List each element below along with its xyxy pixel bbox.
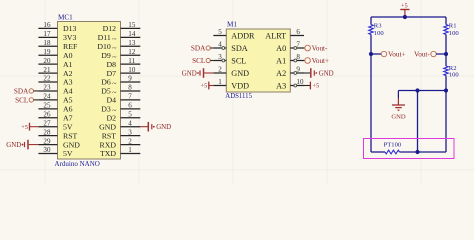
M1 comment ADS1115 [225, 93, 252, 100]
wire M1 pin 7 to Vout- port [303, 47, 306, 49]
power +5 (top of divider) [400, 3, 409, 17]
svg-text:GND: GND [63, 140, 80, 149]
M1 pin 7 A0 [276, 41, 304, 53]
MC1 pin 17 3V3 [38, 30, 76, 42]
svg-text:27: 27 [43, 119, 51, 127]
svg-text:9: 9 [296, 66, 300, 74]
svg-text:GND: GND [319, 70, 334, 77]
wire left branch below R3 [370, 35, 372, 55]
svg-text:D2: D2 [106, 113, 116, 122]
svg-text:4: 4 [218, 41, 222, 49]
wire right branch upper (R1 top) [445, 17, 447, 25]
svg-text:ALRT: ALRT [265, 31, 286, 40]
M1 pin 3 SCL [213, 53, 246, 65]
power GND (at MC1 pin 4) [148, 122, 171, 132]
MC1 pin 29 GND [38, 137, 80, 149]
svg-text:D10: D10 [97, 42, 111, 51]
svg-text:ADS1115: ADS1115 [225, 93, 252, 100]
svg-text:100: 100 [374, 30, 385, 37]
svg-text:TXD: TXD [100, 149, 116, 158]
ADS1115 M1 body [226, 29, 290, 92]
svg-text:100: 100 [449, 30, 460, 37]
MC1 pin 25 A6 [38, 102, 72, 114]
svg-text:20: 20 [43, 57, 51, 65]
MC1 pin 30 5V [38, 146, 72, 158]
power GND (to MC1 pin 29) [6, 140, 28, 150]
svg-text:SDA: SDA [191, 44, 206, 52]
svg-text:A7: A7 [63, 113, 73, 122]
wire GND to M1 pin 2 [204, 72, 213, 74]
junction middle branch / bottom rail [415, 150, 419, 154]
svg-text:Arduino NANO: Arduino NANO [55, 160, 100, 168]
svg-text:30: 30 [43, 146, 51, 154]
wire top rail [371, 16, 446, 18]
svg-text:2: 2 [218, 66, 222, 74]
junction Vout- tap [444, 52, 448, 56]
svg-text:A2: A2 [63, 69, 73, 78]
svg-text:RST: RST [102, 131, 117, 140]
svg-text:7: 7 [128, 93, 132, 101]
MC1 pin 28 RST [38, 128, 77, 140]
svg-text:29: 29 [43, 137, 51, 145]
svg-text:18: 18 [43, 39, 51, 47]
MC1 pin 20 A1 [38, 57, 72, 69]
svg-text:A6: A6 [63, 105, 73, 114]
svg-text:25: 25 [43, 102, 51, 110]
svg-text:RXD: RXD [100, 140, 117, 149]
svg-text:13: 13 [128, 39, 136, 47]
svg-text:D11: D11 [98, 33, 111, 42]
svg-text:A0: A0 [63, 51, 73, 60]
wire GND rail [398, 90, 446, 92]
svg-text:R1: R1 [449, 23, 457, 30]
svg-text:D5: D5 [101, 87, 111, 96]
power +5 (at M1 pin 10) [310, 82, 319, 90]
MC1 pin 27 5V [38, 119, 72, 131]
MC1 pin 12 D9~ [101, 48, 140, 61]
svg-text:24: 24 [43, 93, 51, 101]
svg-text:+5: +5 [21, 124, 28, 131]
svg-text:14: 14 [128, 30, 136, 38]
svg-text:4: 4 [128, 119, 132, 127]
svg-text:MC1: MC1 [58, 14, 73, 22]
wire SDA port to pin 23 [34, 90, 39, 92]
svg-text:7: 7 [296, 41, 300, 49]
svg-text:19: 19 [43, 48, 51, 56]
port SCL (to MC1 pin 24) [15, 96, 33, 104]
M1 pin 5 ADDR [213, 28, 255, 40]
svg-text:5: 5 [218, 28, 222, 36]
power +5 (to M1 pin 1) [201, 82, 209, 90]
wire GND to pin 29 [29, 144, 39, 146]
svg-text:RST: RST [63, 131, 78, 140]
svg-text:10: 10 [128, 66, 136, 74]
MC1 pin 18 REF [38, 39, 78, 51]
svg-text:D13: D13 [63, 24, 77, 33]
svg-text:D7: D7 [106, 69, 116, 78]
svg-text:10: 10 [296, 78, 304, 86]
svg-text:100: 100 [449, 72, 460, 79]
port SDA (to MC1 pin 23) [14, 87, 34, 95]
svg-text:1: 1 [128, 146, 132, 154]
svg-text:SCL: SCL [231, 56, 246, 65]
MC1 pin 4 GND [99, 119, 140, 131]
port Vout- (at M1 pin 7) [305, 44, 328, 52]
junction Vout+ tap [369, 52, 373, 56]
svg-text:3V3: 3V3 [63, 33, 77, 42]
svg-text:D6: D6 [101, 78, 111, 87]
power +5 (to MC1 pin 27) [21, 123, 29, 131]
M1 designator [227, 21, 237, 29]
wire left branch upper (R3 top) [370, 17, 372, 25]
svg-text:15: 15 [128, 21, 136, 29]
wire SDA port to M1 pin 4 [210, 47, 213, 49]
resistor R3 [369, 23, 385, 37]
wire M1 pin 9 to GND [304, 72, 310, 74]
MC1 comment Arduino NANO [55, 160, 100, 168]
svg-text:+5: +5 [201, 83, 208, 90]
wire MC1 pin 4 to GND [140, 126, 148, 128]
port Vout+ (node Vout+) [381, 50, 405, 58]
svg-text:D8: D8 [106, 60, 116, 69]
svg-text:GND: GND [99, 122, 116, 131]
MC1 pin 14 D11~ [98, 30, 141, 43]
svg-text:28: 28 [43, 128, 51, 136]
svg-text:VDD: VDD [231, 81, 249, 90]
resistor R1 [444, 23, 460, 37]
svg-text:3: 3 [128, 128, 132, 136]
svg-text:~: ~ [112, 79, 116, 88]
wire right branch below R2 [445, 76, 447, 153]
svg-text:5V: 5V [63, 122, 73, 131]
Arduino NANO MC1 body [58, 22, 121, 160]
svg-text:SCL: SCL [192, 57, 205, 65]
wire M1 pin 8 to Vout+ port [303, 60, 306, 62]
svg-text:A5: A5 [63, 96, 73, 105]
wire right branch middle (R2 top) [445, 54, 447, 66]
svg-text:6: 6 [296, 28, 300, 36]
MC1 pin 19 A0 [38, 48, 72, 60]
MC1 pin 2 RXD [100, 137, 141, 149]
svg-text:22: 22 [43, 75, 51, 83]
M1 pin 4 SDA [213, 41, 247, 53]
svg-text:SDA: SDA [231, 44, 247, 53]
wire SCL port to pin 24 [34, 99, 39, 101]
svg-text:~: ~ [112, 34, 116, 43]
M1 pin 10 A3 [276, 78, 304, 90]
svg-text:REF: REF [63, 42, 78, 51]
svg-text:5V: 5V [63, 149, 73, 158]
svg-text:17: 17 [43, 30, 51, 38]
svg-text:8: 8 [128, 84, 132, 92]
svg-text:GND: GND [391, 114, 406, 121]
MC1 pin 9 D6~ [101, 75, 140, 88]
svg-text:Vout+: Vout+ [312, 57, 330, 65]
power GND (divider ground) [391, 91, 406, 121]
svg-text:11: 11 [128, 57, 135, 65]
svg-text:GND: GND [231, 69, 249, 78]
svg-text:12: 12 [128, 48, 136, 56]
MC1 pin 16 D13 [38, 21, 76, 33]
port Vout+ (at M1 pin 8) [305, 57, 329, 65]
wire +5 to pin 27 [30, 126, 39, 128]
wire bottom rail left [371, 151, 385, 153]
svg-text:ADDR: ADDR [231, 31, 255, 40]
svg-text:GND: GND [6, 142, 21, 149]
MC1 designator [58, 14, 73, 22]
MC1 pin 13 D10~ [97, 39, 140, 52]
svg-text:+5: +5 [312, 83, 319, 90]
svg-text:SDA: SDA [14, 87, 29, 95]
svg-text:23: 23 [43, 84, 51, 92]
svg-text:M1: M1 [227, 21, 237, 29]
port SCL (to M1 pin 3) [192, 57, 210, 65]
wire left branch lower [370, 54, 372, 152]
wire M1 pin 10 to +5 [304, 85, 310, 87]
MC1 pin 21 A2 [38, 66, 72, 78]
M1 pin 9 A2 [276, 66, 304, 78]
svg-text:D12: D12 [103, 24, 117, 33]
power GND (to M1 pin 2) [182, 68, 204, 78]
PT100 highlight box [364, 139, 455, 159]
resistor R2 [444, 65, 460, 78]
MC1 pin 3 RST [102, 128, 141, 140]
wire SCL port to M1 pin 3 [210, 60, 213, 62]
svg-text:8: 8 [296, 53, 300, 61]
svg-text:26: 26 [43, 110, 51, 118]
MC1 pin 26 A7 [38, 110, 72, 122]
svg-text:R3: R3 [374, 23, 382, 30]
svg-text:A3: A3 [276, 81, 286, 90]
MC1 pin 10 D7 [106, 66, 140, 78]
svg-text:5: 5 [128, 110, 132, 118]
MC1 pin 11 D8 [106, 57, 140, 69]
svg-text:A2: A2 [276, 69, 286, 78]
junction +5 / top rail [403, 15, 407, 19]
svg-text:D3: D3 [101, 105, 111, 114]
M1 pin 8 A1 [276, 53, 304, 65]
svg-text:A4: A4 [63, 87, 73, 96]
svg-text:D4: D4 [106, 96, 116, 105]
svg-text:+5: +5 [401, 3, 408, 10]
svg-text:Vout+: Vout+ [388, 50, 406, 58]
svg-text:3: 3 [218, 53, 222, 61]
svg-text:A3: A3 [63, 78, 73, 87]
MC1 pin 7 D4 [106, 93, 140, 105]
wire Vout+ tap stub [371, 53, 381, 55]
svg-text:SCL: SCL [15, 96, 28, 104]
M1 pin 1 VDD [213, 78, 249, 90]
port SDA (to M1 pin 4) [191, 44, 210, 52]
MC1 pin 8 D5~ [101, 84, 140, 97]
M1 pin 6 ALRT [265, 28, 304, 40]
wire Vout- stub [436, 53, 446, 55]
svg-text:GND: GND [156, 124, 171, 131]
svg-text:~: ~ [112, 43, 116, 52]
MC1 pin 1 TXD [100, 146, 140, 158]
svg-text:D9: D9 [101, 51, 111, 60]
wire right branch below R1 [445, 35, 447, 55]
MC1 pin 22 A3 [38, 75, 72, 87]
svg-text:GND: GND [182, 70, 197, 77]
svg-text:9: 9 [128, 75, 132, 83]
svg-text:A1: A1 [63, 60, 73, 69]
wire bottom rail right [400, 151, 447, 153]
svg-text:Vout-: Vout- [414, 50, 430, 58]
MC1 pin 24 A5 [38, 93, 72, 105]
svg-text:6: 6 [128, 102, 132, 110]
svg-text:16: 16 [43, 21, 51, 29]
svg-text:PT100: PT100 [384, 141, 402, 148]
port Vout- (node Vout-) [414, 50, 436, 58]
svg-text:A1: A1 [276, 56, 286, 65]
svg-text:Vout-: Vout- [312, 44, 328, 52]
resistor PT100 [384, 141, 402, 154]
svg-text:A0: A0 [276, 44, 286, 53]
wire middle branch [417, 91, 419, 153]
MC1 pin 5 D2 [106, 110, 140, 122]
MC1 pin 6 D3~ [101, 102, 140, 115]
svg-text:1: 1 [218, 78, 222, 86]
wire +5 to M1 pin 1 [209, 85, 214, 87]
MC1 pin 15 D12 [103, 21, 141, 33]
power GND (at M1 pin 9) [311, 68, 334, 78]
MC1 pin 23 A4 [38, 84, 72, 96]
svg-text:21: 21 [43, 66, 51, 74]
junction R2 / GND rail [444, 88, 448, 92]
M1 pin 2 GND [213, 66, 249, 78]
junction GND rail / middle branch [415, 88, 419, 92]
svg-text:2: 2 [128, 137, 132, 145]
